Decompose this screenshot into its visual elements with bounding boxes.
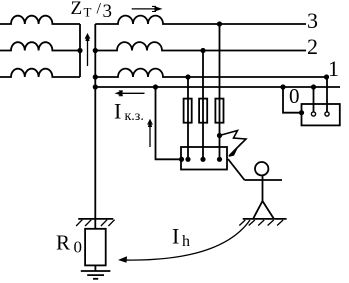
svg-text:I: I (172, 223, 179, 248)
svg-text:R: R (56, 231, 70, 255)
svg-text:I: I (114, 99, 121, 124)
svg-text:T: T (84, 4, 92, 19)
svg-text:3: 3 (103, 1, 113, 22)
svg-text:3: 3 (307, 8, 318, 33)
svg-text:0: 0 (74, 237, 83, 256)
svg-text:Z: Z (71, 0, 83, 19)
svg-text:h: h (182, 233, 190, 250)
svg-text:1: 1 (328, 56, 339, 81)
svg-text:2: 2 (307, 34, 318, 59)
svg-text:к.з.: к.з. (125, 109, 144, 124)
svg-text:/: / (97, 1, 102, 18)
svg-text:0: 0 (289, 84, 300, 108)
